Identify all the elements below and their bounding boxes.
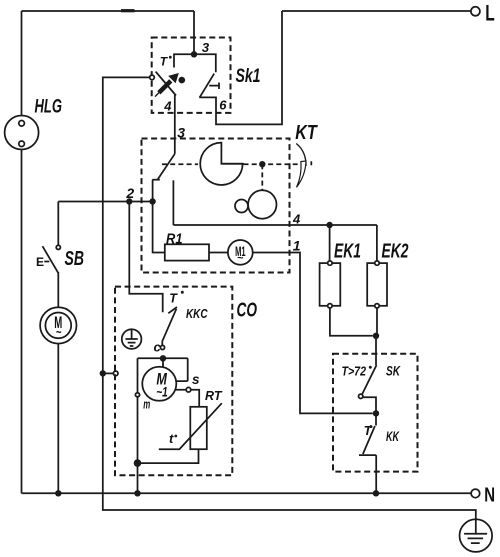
pushbutton SB: [43, 202, 61, 308]
node cam axis: [259, 161, 265, 167]
wire SK1 pin3 drop: [193, 11, 195, 53]
KT cam: [200, 143, 244, 185]
node 2b: [149, 198, 155, 204]
node SK1 pin3: [191, 51, 197, 57]
SK1 fixed contact dot: [179, 77, 186, 84]
svg-text:~: ~: [56, 325, 62, 340]
svg-text:KT: KT: [295, 122, 318, 144]
thermistor RT: [159, 403, 222, 449]
node CO bottom: [134, 459, 142, 467]
wire m down: [137, 397, 139, 463]
svg-text:EK2: EK2: [382, 241, 409, 263]
wire earth bus: [103, 77, 476, 533]
KKC arm: [162, 309, 176, 346]
wire HLG bus lower: [21, 150, 23, 494]
svg-text:KKC: KKC: [186, 307, 208, 321]
wire KT contact to node 2: [152, 180, 154, 202]
wire R1 feed: [153, 202, 166, 253]
fan motor M: [40, 307, 76, 343]
wire s to RT: [191, 390, 199, 407]
wire fan to N: [57, 344, 59, 494]
ground symbol bottom right: [460, 519, 493, 552]
svg-text:t: t: [169, 431, 174, 446]
svg-text:Sk1: Sk1: [236, 66, 261, 87]
SK1 thermal arm: [156, 72, 176, 96]
svg-text:L: L: [485, 0, 495, 25]
node EK bottom: [373, 333, 379, 339]
SK1 case terminal: [150, 75, 155, 80]
junction tick on top rail: [121, 9, 135, 12]
lamp HLG: [5, 116, 39, 150]
wire 4: [173, 224, 377, 226]
svg-text:RT: RT: [205, 388, 223, 403]
svg-text:HLG: HLG: [35, 97, 63, 118]
node wire4 EK1: [326, 222, 332, 228]
wire N rail: [22, 492, 472, 494]
heater EK1: [320, 261, 341, 308]
wire 1: [253, 253, 373, 414]
wire CO case stub: [103, 372, 114, 374]
svg-text:SB: SB: [65, 248, 85, 270]
node SK/KK: [373, 410, 379, 416]
resistor R1: [165, 244, 209, 260]
SK switch arm: [362, 365, 377, 394]
heater EK2: [367, 261, 387, 308]
svg-text:~1: ~1: [156, 383, 168, 399]
KT changeover contact to pin4: [172, 180, 174, 225]
svg-text:R1: R1: [166, 231, 183, 248]
svg-text:N: N: [484, 483, 495, 506]
compressor CO box: [115, 287, 232, 476]
KT gear small: [235, 200, 248, 213]
KT motor link dashed: [261, 164, 263, 190]
SK1 contact 6 bracket: [209, 83, 219, 90]
wire R1 to M1: [209, 252, 228, 254]
svg-text:6: 6: [219, 98, 227, 113]
KT switch arm: [157, 154, 175, 180]
svg-text:1: 1: [293, 238, 301, 254]
svg-text:KK: KK: [386, 429, 400, 444]
wire c bus: [138, 358, 188, 392]
KT coupling arrow: [296, 144, 306, 188]
node N KK: [373, 490, 379, 496]
svg-text:4: 4: [163, 99, 172, 114]
wire node2 to KKC: [129, 202, 162, 313]
terminal c: [160, 345, 164, 349]
wire SK1 pin4 to KT pin3: [174, 95, 176, 154]
wire EK to SK: [375, 336, 377, 365]
svg-text:T>72: T>72: [342, 363, 367, 378]
svg-text:4: 4: [292, 212, 301, 227]
KT cam axis dashed: [162, 163, 309, 165]
wire SK contact down: [363, 397, 376, 411]
motor M1 (timer): [228, 240, 253, 265]
svg-text:2: 2: [125, 185, 134, 201]
wire 2: [58, 201, 152, 203]
thermostat SK1 box: [152, 38, 231, 113]
svg-text:3: 3: [202, 40, 210, 55]
terminal m: [135, 393, 139, 397]
wire CO to N: [137, 463, 139, 493]
terminal s: [186, 387, 191, 392]
svg-text:T: T: [169, 291, 178, 305]
svg-text:~: ~: [237, 253, 244, 265]
svg-text:EK1: EK1: [334, 241, 361, 263]
svg-text:m: m: [143, 397, 150, 412]
ground symbol CO: [122, 329, 142, 349]
KT cam axis end tick: [310, 161, 312, 165]
SK1 thermal arrow: [155, 73, 179, 97]
wire EK bottoms: [330, 308, 377, 336]
timer KT box: [142, 139, 290, 273]
KT contact plate: [152, 179, 160, 181]
wire SK1 pin6 to L: [199, 11, 282, 124]
protector SK box: [333, 354, 418, 472]
wire L rail: [282, 10, 471, 12]
SK1 contact 6 arm: [200, 74, 215, 98]
terminal N: [471, 489, 480, 498]
wire HLG bus upper: [21, 11, 23, 116]
SK1 contact wiring: [174, 54, 216, 72]
KKC contact tick: [168, 307, 177, 313]
svg-text:E: E: [36, 255, 44, 269]
KT gear big: [248, 190, 276, 218]
KK switch: [359, 413, 376, 493]
node N fan: [55, 490, 61, 496]
terminal L: [471, 7, 480, 16]
wire EK2 top: [376, 225, 378, 261]
svg-text:c: c: [154, 340, 162, 355]
node 2a: [126, 198, 132, 204]
svg-text:s: s: [192, 372, 200, 387]
svg-text:SK: SK: [386, 364, 401, 379]
wire top rail left: [22, 10, 195, 12]
wire EK1 top: [329, 225, 331, 261]
wire RT bottom: [141, 449, 199, 463]
svg-text:CO: CO: [237, 299, 258, 321]
node N compressor: [134, 490, 140, 496]
compressor motor M: [142, 367, 176, 401]
node c: [160, 355, 166, 361]
node earth CO: [100, 370, 106, 376]
CO case terminal: [113, 371, 118, 376]
SK contact terminal: [359, 394, 363, 398]
